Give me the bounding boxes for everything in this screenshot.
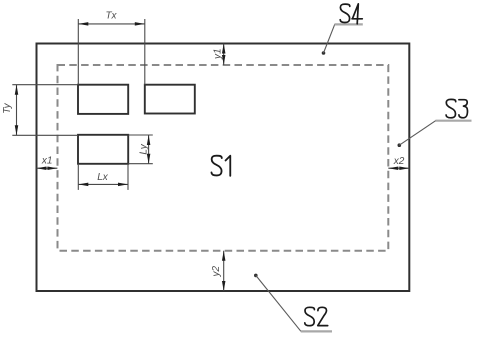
dimension Tx (horizontal pitch) [78,19,145,85]
dimension y2 (bottom margin) [223,251,225,291]
dimension x2 (right margin) [388,167,409,169]
svg-text:x2: x2 [393,156,405,167]
svg-text:Lx: Lx [97,172,109,183]
svg-text:x1: x1 [41,155,53,166]
dimension Ly (element height) [128,135,153,164]
dimension y1 (top margin) [223,44,225,66]
leader line and label S2 [254,274,258,278]
element rectangle 3 (bottom) [78,135,128,164]
dimension Lx (element width) [78,164,128,190]
svg-text:Tx: Tx [105,11,117,22]
element rectangle 2 (top-right) [145,85,195,114]
element rectangle 1 (top-left) [78,85,128,114]
svg-text:Ly: Ly [138,143,149,154]
outer boundary rectangle (region S4) [37,44,410,292]
dimension Ty (vertical pitch) [12,85,78,136]
svg-text:y2: y2 [211,265,222,277]
dimension x1 (left margin) [37,167,58,169]
leader line and label S3 [398,143,402,147]
svg-text:y1: y1 [213,48,224,60]
leader line and label S4 [322,51,326,55]
dashed inner boundary (region S1) [58,65,389,251]
label S1 (center of dashed region) [211,156,230,176]
svg-text:Ty: Ty [2,102,13,113]
